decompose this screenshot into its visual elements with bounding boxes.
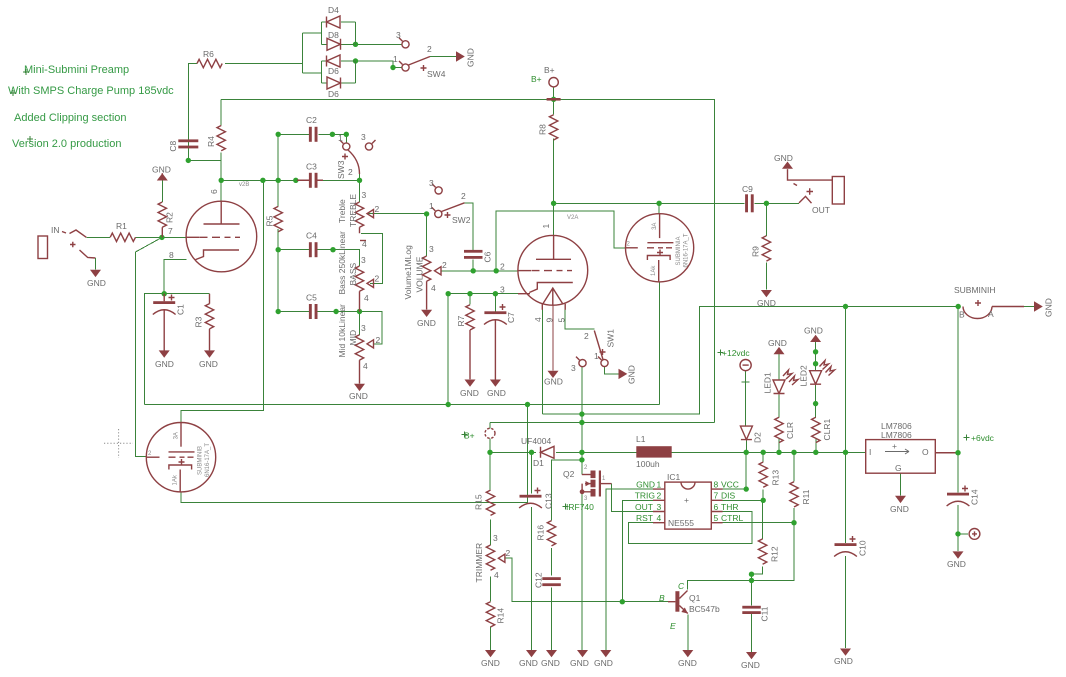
svg-text:D4: D4: [328, 5, 339, 15]
svg-text:3: 3: [396, 30, 401, 40]
svg-text:A: A: [988, 309, 994, 319]
capacitor C12: [533, 572, 561, 588]
diode D2: [740, 426, 762, 443]
regulator LM7806: [866, 421, 936, 473]
ground GND under C13: [519, 650, 538, 668]
wire C14 bottom to GND: [957, 505, 959, 551]
wire rail to C10: [845, 307, 847, 544]
ground GND under R7: [460, 380, 479, 399]
wire C13 top lead: [531, 452, 533, 493]
svg-text:GND: GND: [804, 326, 823, 336]
transistor Q1 BC547b: [659, 581, 720, 631]
wire L1 right to regulator rail: [672, 451, 866, 453]
wire V2A pin4 to H2: [541, 305, 543, 414]
wire R14 leads: [490, 577, 492, 650]
svg-text:Volume1MLog: Volume1MLog: [403, 245, 413, 300]
ground GND right of SW1: [619, 365, 637, 384]
svg-text:GND: GND: [349, 391, 368, 401]
svg-text:2: 2: [348, 167, 353, 177]
wire C1 R3 node row: [164, 293, 209, 295]
svg-text:GND: GND: [481, 658, 500, 668]
svg-text:Q1: Q1: [689, 593, 701, 603]
capacitor C8: [168, 139, 199, 151]
svg-text:2: 2: [584, 331, 589, 341]
diode D4: [322, 5, 356, 28]
resistor R1: [110, 221, 135, 242]
wire C7 top lead: [494, 294, 496, 312]
resistor CLR1: [812, 417, 832, 442]
wire B+ rail top: [221, 99, 714, 422]
wire C4 row left: [278, 249, 309, 251]
ground GND under C10: [834, 649, 853, 667]
svg-text:C3: C3: [306, 162, 317, 172]
svg-text:GND: GND: [460, 388, 479, 398]
svg-text:3: 3: [657, 502, 662, 512]
svg-text:R12: R12: [769, 546, 779, 562]
switch SW3: [336, 132, 376, 179]
svg-text:5: 5: [714, 513, 719, 523]
svg-text:GND: GND: [155, 359, 174, 369]
wire node to H1 feedback left branch: [145, 294, 165, 405]
svg-text:R6: R6: [203, 49, 214, 59]
wire anode row to C9: [554, 202, 745, 204]
svg-text:GND: GND: [541, 658, 560, 668]
capacitor C14 polarized: [947, 486, 980, 507]
supply B+ top: [531, 65, 561, 101]
svg-text:OUT: OUT: [635, 502, 653, 512]
wire R4 top to B+ rail corner: [220, 99, 222, 125]
svg-text:7: 7: [168, 226, 173, 236]
svg-text:Mid 10kLinear: Mid 10kLinear: [337, 304, 347, 358]
ground GND under VOLUME: [417, 310, 436, 328]
wire H3 B+ from SMPS: [490, 422, 715, 424]
wire lower tube cathode run: [181, 405, 528, 503]
resistor R7: [456, 305, 474, 380]
svg-text:+6vdc: +6vdc: [971, 433, 995, 443]
wire LED1 chain: [778, 354, 780, 417]
svg-text:IC1: IC1: [667, 472, 681, 482]
resistor R12: [758, 539, 779, 564]
svg-text:V2A: V2A: [567, 215, 578, 221]
svg-text:2: 2: [442, 260, 447, 270]
svg-text:With SMPS Charge Pump 185vdc: With SMPS Charge Pump 185vdc: [8, 85, 174, 97]
svg-text:3A: 3A: [652, 223, 658, 230]
svg-text:LED2: LED2: [799, 365, 809, 387]
wire NE555 dis pin to R13 R12 node: [723, 499, 764, 501]
svg-text:D1: D1: [533, 458, 544, 468]
potentiometer TRIMMER: [474, 533, 511, 583]
wire grid node up and over to small tube grid: [496, 211, 625, 271]
wire R1 to grid node: [136, 236, 187, 238]
wire LM7806 G lead: [900, 473, 902, 495]
wire C10 bottom to GND: [845, 556, 847, 648]
svg-text:3: 3: [361, 132, 366, 142]
capacitor C7 polarized: [484, 304, 516, 380]
svg-text:100uh: 100uh: [636, 459, 660, 469]
svg-text:SUBMINIA: SUBMINIA: [676, 236, 682, 265]
switch SW2: [429, 178, 471, 225]
ground GND above OUT jack: [774, 153, 793, 169]
svg-text:3: 3: [500, 285, 505, 295]
wire small tube cathode lead down to H1: [659, 282, 661, 405]
wire R9 bottom to GND: [765, 262, 767, 289]
wire Q2 gate from NE555 out: [612, 484, 654, 512]
svg-text:GND: GND: [1044, 298, 1054, 317]
ground GND under C12: [541, 650, 560, 668]
svg-text:1: 1: [541, 224, 551, 229]
origin crosshair: [104, 429, 133, 458]
wire cathode pin8 to C1/R3 node: [164, 260, 186, 294]
svg-text:R16: R16: [535, 525, 545, 541]
svg-text:2: 2: [657, 491, 662, 501]
diode D6: [322, 55, 356, 76]
wire B+ top supply to rail: [553, 87, 555, 99]
svg-text:+: +: [892, 441, 897, 451]
wire node7 diagonal down to lower tube grid: [136, 237, 162, 456]
svg-text:Version 2.0 production: Version 2.0 production: [12, 138, 121, 150]
svg-text:Mini-Submini Preamp: Mini-Submini Preamp: [24, 64, 129, 76]
svg-text:SW4: SW4: [427, 69, 446, 79]
potentiometer VOLUME: [403, 244, 447, 310]
IC1 NE555: [635, 472, 744, 529]
wire cathode row V2A: [448, 293, 518, 295]
svg-text:2: 2: [375, 274, 380, 284]
svg-text:9: 9: [545, 318, 555, 323]
wire R12 top lead: [762, 500, 764, 539]
wire R5 bottom to C4 row: [277, 229, 279, 250]
wire LED2 chain: [815, 342, 817, 417]
ground GND under NE555: [594, 650, 613, 668]
wire C13 bottom to GND: [531, 507, 533, 650]
wire R9 top lead: [765, 203, 767, 236]
wire H1 cathode bus: [145, 404, 660, 406]
ground GND under C1: [155, 350, 174, 369]
wire SW2 node down to volume top: [426, 214, 428, 256]
svg-text:3: 3: [429, 244, 434, 254]
wire R7 top lead: [469, 294, 471, 305]
ground GND under tube pin9: [544, 371, 563, 387]
connector OUT jack: [788, 169, 845, 215]
supply B+ bottom: [462, 428, 496, 440]
svg-text:C4: C4: [306, 231, 317, 241]
svg-text:2: 2: [376, 335, 381, 345]
svg-text:Added Clipping section: Added Clipping section: [14, 112, 127, 124]
ground GND above LED1: [768, 338, 787, 354]
svg-text:B+: B+: [464, 431, 475, 441]
wire SW1 pin3 down to H2: [581, 367, 583, 414]
svg-text:GND: GND: [87, 278, 106, 288]
svg-text:TRIMMER: TRIMMER: [474, 543, 484, 583]
svg-text:B+: B+: [531, 74, 542, 84]
svg-text:SW1: SW1: [605, 329, 615, 348]
svg-text:IRF740: IRF740: [566, 502, 594, 512]
svg-text:2: 2: [375, 204, 380, 214]
svg-text:4: 4: [657, 513, 662, 523]
svg-text:R11: R11: [801, 489, 811, 504]
wire volume wiper row to V2A grid: [442, 270, 518, 272]
wire SMPS output riser: [581, 414, 583, 474]
svg-text:1: 1: [429, 201, 434, 211]
svg-text:GND: GND: [199, 359, 218, 369]
svg-text:C13: C13: [544, 493, 554, 509]
svg-text:R14: R14: [495, 608, 505, 624]
svg-text:GND: GND: [544, 377, 563, 387]
svg-text:BASS: BASS: [348, 262, 358, 285]
svg-text:1: 1: [594, 351, 599, 361]
svg-text:R2: R2: [165, 212, 175, 223]
svg-text:2: 2: [506, 548, 511, 558]
svg-text:4: 4: [494, 570, 499, 580]
ground GND under R9: [757, 290, 776, 308]
svg-text:3A: 3A: [173, 432, 179, 439]
svg-text:BC547b: BC547b: [689, 604, 720, 614]
capacitor C3: [297, 162, 323, 188]
wire B+ bottom symbol leads: [489, 423, 491, 453]
svg-text:GND: GND: [570, 658, 589, 668]
svg-text:D6: D6: [328, 89, 339, 99]
wire R4 bottom to plate row: [220, 153, 222, 181]
ground GND right of SUBMINIH: [1034, 298, 1054, 317]
capacitor C13 polarized: [519, 488, 554, 510]
svg-text:SW3: SW3: [336, 160, 346, 179]
svg-text:GND: GND: [627, 365, 637, 384]
inductor L1: [636, 434, 672, 469]
resistor R3: [194, 294, 214, 351]
wire C9 right to OUT: [755, 202, 800, 204]
svg-text:B+: B+: [544, 65, 555, 75]
svg-text:LM7806: LM7806: [881, 430, 912, 440]
resistor CLR: [775, 417, 795, 442]
svg-text:R5: R5: [265, 215, 275, 226]
wire lower tube plate link: [181, 180, 263, 422]
svg-text:NE555: NE555: [668, 518, 694, 528]
svg-text:4: 4: [431, 283, 436, 293]
wire R2 top to GND: [161, 181, 163, 203]
resistor R11: [790, 482, 811, 507]
resistor R4: [206, 126, 226, 151]
ground GND under C11: [741, 652, 760, 670]
capacitor C5: [306, 293, 318, 320]
svg-text:1: 1: [657, 480, 662, 490]
wire R11 node down to collector line: [752, 523, 795, 581]
svg-text:C10: C10: [858, 540, 868, 556]
tube SUBMINIA small triode: [625, 214, 694, 282]
svg-text:6: 6: [714, 502, 719, 512]
svg-text:CTRL: CTRL: [721, 513, 743, 523]
ground GND under R3: [199, 350, 218, 369]
svg-text:3: 3: [429, 178, 434, 188]
svg-text:3: 3: [571, 363, 576, 373]
svg-text:R3: R3: [194, 316, 204, 327]
wire C6 bottom to volume wiper row: [472, 259, 474, 271]
svg-text:3: 3: [361, 323, 366, 333]
wire SW3 lever end to treble top: [359, 174, 361, 202]
svg-text:VOLUME: VOLUME: [414, 256, 424, 292]
wire Q2 source to GND: [581, 492, 583, 650]
svg-text:R13: R13: [771, 470, 781, 486]
capacitor C11: [742, 606, 769, 622]
svg-text:I: I: [869, 447, 871, 457]
svg-text:GND: GND: [519, 658, 538, 668]
wire treble wiper to SW2 pin1: [367, 213, 427, 215]
resistor R15: [473, 490, 494, 515]
wire R6 right to clipper left connector: [225, 63, 303, 65]
resistor R13: [759, 462, 781, 487]
svg-text:MID: MID: [348, 330, 358, 346]
svg-text:R15: R15: [473, 494, 483, 510]
svg-text:CLR: CLR: [785, 422, 795, 439]
ground GND at IN jack: [87, 270, 106, 288]
diode D1 UF4004: [521, 436, 554, 468]
wire trimmer wiper to Q1 base: [504, 558, 668, 602]
svg-text:Treble: Treble: [337, 199, 347, 223]
svg-text:GND: GND: [890, 504, 909, 514]
wire gnd node stub to pad: [958, 533, 968, 535]
svg-text:3: 3: [362, 190, 367, 200]
wire C12 bottom to GND: [551, 587, 553, 650]
svg-text:R9: R9: [750, 246, 760, 257]
svg-text:R8: R8: [538, 124, 548, 135]
svg-text:GND: GND: [487, 388, 506, 398]
wire C2 right to SW3 pin1: [319, 134, 347, 142]
wire R8 bottom to anode row: [553, 138, 555, 203]
svg-text:C12: C12: [533, 572, 543, 588]
clipper box bottom: [322, 61, 356, 83]
svg-text:GND: GND: [768, 338, 787, 348]
potentiometer BASS: [337, 231, 379, 311]
wire subminih column to C14: [957, 307, 959, 493]
wire small tube top lead: [658, 203, 660, 214]
svg-text:C14: C14: [970, 489, 980, 505]
wire R16 branch: [552, 460, 582, 521]
capacitor C10 polarized: [834, 536, 867, 557]
svg-text:B: B: [659, 593, 665, 603]
svg-text:D6: D6: [328, 66, 339, 76]
diode D8: [322, 30, 356, 50]
wire NE555 vcc to rail: [723, 452, 747, 489]
svg-text:B: B: [959, 310, 965, 320]
wire R15 top lead: [489, 452, 491, 490]
wire CLR bottom lead: [778, 438, 780, 452]
svg-text:G: G: [895, 463, 902, 473]
wire V2A plate lead: [553, 203, 555, 236]
clipper box top: [322, 22, 356, 44]
wire R12 bottom jog: [752, 566, 763, 574]
ground GND under R14: [481, 650, 500, 668]
svg-text:C5: C5: [306, 293, 317, 303]
svg-text:GND: GND: [741, 660, 760, 670]
svg-text:TRIG: TRIG: [635, 491, 655, 501]
svg-text:+12vdc: +12vdc: [722, 348, 750, 358]
svg-text:D8: D8: [328, 30, 339, 40]
svg-text:O: O: [922, 447, 929, 457]
wire NE555 trig pin down to base line: [622, 500, 653, 601]
wire plate lead into tube: [220, 180, 222, 201]
svg-text:LED1: LED1: [763, 372, 773, 394]
svg-text:Bass 250kLinear: Bass 250kLinear: [337, 231, 347, 294]
wire C4 right to bass top: [318, 250, 360, 266]
capacitor C9: [742, 184, 754, 212]
resistor R8: [538, 115, 558, 140]
supply +6vdc: [964, 433, 995, 443]
wire CLR1 bottom lead: [815, 438, 817, 452]
svg-text:E: E: [670, 621, 676, 631]
svg-text:C6: C6: [483, 251, 493, 262]
svg-text:GND: GND: [834, 656, 853, 666]
svg-text:GND: GND: [947, 559, 966, 569]
svg-text:1: 1: [338, 133, 343, 143]
wire NE555 rst to thr loop: [629, 512, 753, 544]
capacitor C6: [464, 250, 493, 263]
supply +12vdc: [718, 348, 752, 371]
connector SUBMINIH heater: [954, 285, 1024, 320]
svg-text:6: 6: [209, 189, 219, 194]
wire treble bottom to bass wiper loop: [361, 233, 382, 283]
svg-text:1Ak: 1Ak: [172, 474, 178, 485]
svg-text:GND: GND: [466, 48, 476, 67]
LED LED1: [763, 370, 799, 394]
wire plate row v23: [221, 179, 297, 181]
wire NE555 gnd pin to GND: [606, 489, 653, 650]
wire C8 bottom to R4 lead: [188, 150, 221, 161]
wire H2 heater run: [542, 307, 958, 415]
wire collector node to C11: [751, 574, 753, 605]
svg-text:+: +: [684, 495, 689, 505]
wire C4 row down to C5 row: [277, 250, 279, 312]
wire clipper top box right to SW4 pin3: [356, 43, 402, 45]
wire tone column left bypass top: [278, 134, 309, 180]
svg-text:6N16-17A_T: 6N16-17A_T: [684, 233, 690, 267]
svg-text:R7: R7: [456, 315, 466, 326]
svg-text:8: 8: [169, 250, 174, 260]
resistor R5: [265, 206, 283, 231]
resistor R16: [535, 521, 555, 546]
tube V2B upper triode: [168, 182, 257, 272]
svg-text:GND: GND: [678, 658, 697, 668]
svg-text:C8: C8: [168, 140, 178, 151]
diode D6 second: [322, 77, 356, 99]
wire SW1 pin1 to GND: [605, 367, 619, 374]
svg-text:3: 3: [361, 255, 366, 265]
wire V2A pin9 to GND: [552, 305, 554, 371]
wire mid node to mid pot top: [359, 312, 361, 335]
wire V2A pin5 to SW1 pin2: [565, 305, 594, 329]
svg-text:GND: GND: [152, 165, 171, 175]
svg-text:TREBLE: TREBLE: [348, 194, 358, 227]
wire D2 bottom lead: [745, 440, 747, 452]
wire R5 top lead: [277, 180, 279, 206]
wire clipper bottom box to SW4 pin1: [356, 61, 402, 68]
svg-text:5: 5: [557, 318, 567, 323]
svg-text:SW2: SW2: [452, 215, 471, 225]
svg-text:RST: RST: [636, 513, 653, 523]
wire SUBMINIH right to GND: [993, 306, 1034, 308]
svg-text:GND: GND: [594, 658, 613, 668]
svg-text:C11: C11: [760, 606, 770, 621]
wire R16 bottom to C12: [551, 548, 553, 576]
svg-text:THR: THR: [721, 502, 738, 512]
wire C11 bottom to GND: [751, 613, 753, 652]
svg-text:C: C: [678, 581, 685, 591]
svg-text:SUBMINIB: SUBMINIB: [197, 446, 203, 475]
svg-text:2: 2: [461, 191, 466, 201]
wire C5 row left: [278, 311, 309, 313]
wire Q1 emitter to GND: [687, 615, 689, 650]
svg-text:VCC: VCC: [721, 480, 739, 490]
wire bottom B+ rail: [490, 451, 536, 453]
svg-text:8: 8: [714, 480, 719, 490]
svg-text:D2: D2: [753, 432, 763, 443]
